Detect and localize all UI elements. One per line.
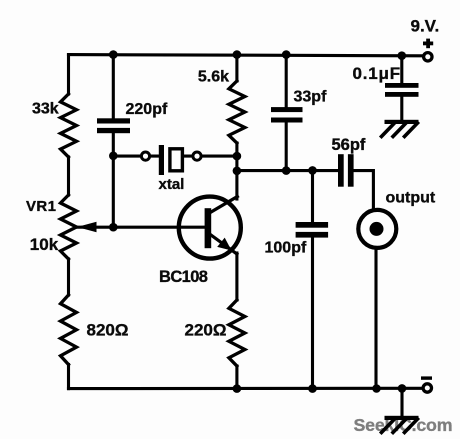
svg-text:820Ω: 820Ω (87, 321, 129, 340)
capacitor C 100pf (296, 222, 329, 238)
wire 56pf right lead (354, 171, 374, 210)
wire bottom rail (69, 387, 422, 390)
wire 220pf bottom lead down to base node (112, 133, 115, 227)
resistor R 220 ohm (229, 300, 245, 366)
crystal xtal left plate (159, 145, 164, 175)
crystal xtal body box (170, 149, 183, 171)
junction dot base node (109, 223, 118, 232)
ground (bottom right) (382, 416, 419, 433)
resistor R 820 ohm (61, 295, 77, 365)
output jack center pin (370, 222, 384, 236)
crystal xtal left terminal circle (141, 152, 149, 160)
potentiometer VR1 wiper arrow (77, 222, 97, 232)
transistor Q1 BC108 (179, 197, 241, 259)
capacitor C 33pf (271, 107, 303, 122)
svg-text:xtal: xtal (159, 176, 185, 193)
wire 33pf bottom lead (285, 123, 288, 171)
svg-text:10k: 10k (30, 235, 59, 254)
wire 100pf bottom lead (311, 238, 314, 389)
power terminal plus sign (423, 39, 433, 49)
wire left vertical above 33k (67, 55, 70, 94)
svg-text:5.6k: 5.6k (198, 68, 229, 85)
junction dot top rail / 33pf (282, 50, 291, 59)
svg-text:output: output (386, 190, 436, 207)
svg-text:VR1: VR1 (26, 198, 56, 215)
junction dot bottom rail / ground (398, 384, 407, 393)
svg-text:220Ω: 220Ω (185, 321, 227, 340)
wire emitter vertical (235, 253, 238, 300)
svg-text:220pf: 220pf (126, 101, 168, 118)
minus terminal bar (421, 376, 432, 379)
wire output node horizontal (237, 169, 338, 172)
svg-text:BC108: BC108 (159, 268, 208, 286)
wire left vertical 33k to VR1 (67, 157, 70, 195)
power terminal circle (9V +) (424, 53, 432, 61)
wire ground stub bottom right (400, 388, 403, 416)
wire 0.1uF bottom lead (400, 97, 403, 121)
junction dot top rail / 0.1uF (398, 51, 407, 60)
svg-text:100pf: 100pf (265, 240, 307, 257)
junction dot xtal right node (233, 152, 242, 161)
resistor R 33k (61, 94, 77, 157)
wire 220pf top lead (112, 55, 115, 119)
junction dot top rail / 220pf (109, 50, 118, 59)
wire 5.6k top lead (235, 55, 238, 81)
wire top rail (69, 55, 422, 56)
potentiometer VR1 track (61, 195, 77, 259)
wire 220 ohm bottom lead (235, 366, 238, 389)
wire xtal right lead (184, 155, 237, 158)
svg-text:0.1μF: 0.1μF (353, 64, 401, 83)
junction dot bottom rail / 100pf (308, 384, 317, 393)
svg-text:9.V.: 9.V. (411, 17, 440, 36)
junction dot xtal left node (109, 152, 118, 161)
capacitor C 220pf (97, 118, 130, 133)
svg-text:56pf: 56pf (332, 136, 366, 154)
capacitor C 56pf (338, 154, 354, 187)
wire output bottom lead (374, 249, 377, 389)
minus terminal circle (423, 384, 431, 392)
capacitor C 0.1uF (385, 83, 419, 97)
resistor R 5.6k (229, 81, 245, 143)
wire 100pf top lead (311, 171, 314, 222)
output jack outer circle (358, 210, 396, 248)
wire base (77, 226, 205, 229)
junction dot 33pf bottom node (282, 166, 291, 175)
junction dot 100pf top node (308, 166, 317, 175)
ground (top right) (382, 120, 419, 137)
wire xtal left lead (113, 155, 159, 158)
wire 33pf top lead (285, 55, 288, 108)
junction dot top rail / 5.6k (233, 50, 242, 59)
wire left vertical VR1 to 820 (67, 259, 70, 295)
junction dot bottom rail / output (372, 384, 381, 393)
junction dot collector node (233, 167, 242, 176)
svg-text:33k: 33k (32, 101, 59, 118)
crystal xtal right terminal circle (193, 152, 201, 160)
junction dot bottom rail / 220 ohm (233, 384, 242, 393)
wire 0.1uF top lead (400, 56, 403, 83)
wire collector vertical (235, 143, 238, 199)
wire left vertical below 820 (67, 365, 70, 389)
svg-text:33pf: 33pf (294, 88, 328, 105)
